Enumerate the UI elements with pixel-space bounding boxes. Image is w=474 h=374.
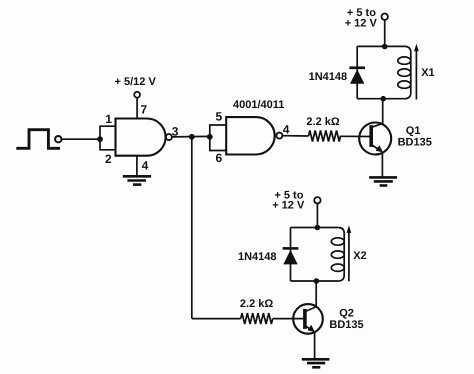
svg-text:+ 12 V: + 12 V: [345, 18, 378, 30]
ground symbol under Q1: [369, 177, 397, 185]
Q2 emitter segment with arrow: [306, 326, 312, 330]
relay coil X1: [405, 46, 411, 98]
svg-text:1N4148: 1N4148: [238, 251, 277, 263]
Q1 emitter wire down: [381, 152, 383, 176]
diode D2 cathode bar: [283, 247, 299, 250]
relay X1 top rail: [357, 45, 404, 47]
supply terminal of gate (+5/12V): [134, 92, 140, 98]
resistor R1 2.2k zigzag: [309, 131, 341, 142]
wire lower channel vertical drop: [191, 137, 193, 319]
wire gate2 input tie (pins 5-6): [210, 125, 226, 151]
Q1 collector wire up to relay: [382, 99, 384, 124]
supply terminal X2 (+5 to +12V): [314, 197, 320, 203]
transistor Q2 body circle: [293, 304, 323, 334]
node collector junction X1: [380, 96, 386, 102]
svg-text:1: 1: [105, 112, 112, 126]
svg-text:6: 6: [216, 151, 223, 165]
svg-text:+ 5/12 V: + 5/12 V: [115, 76, 157, 88]
svg-text:Q2: Q2: [339, 308, 354, 320]
pin 7 supply wire: [136, 98, 138, 119]
gate1 output inversion bubble: [166, 134, 172, 140]
Q1 emitter segment with arrow: [372, 145, 380, 150]
svg-text:5: 5: [216, 110, 223, 124]
svg-text:1N4148: 1N4148: [309, 71, 348, 83]
NAND gate U1b body: [226, 117, 274, 154]
svg-text:X1: X1: [421, 67, 434, 79]
diode D1 triangle: [350, 69, 364, 84]
ground symbol under Q2: [302, 359, 330, 367]
svg-text:+ 12 V: + 12 V: [272, 200, 305, 212]
svg-text:2: 2: [105, 152, 112, 166]
input pulse waveform: [16, 130, 60, 149]
relay X2 top rail: [291, 227, 339, 229]
svg-text:2.2 kΩ: 2.2 kΩ: [306, 116, 339, 128]
relay X2 arrow: [348, 232, 350, 282]
diode D1 branch vertical wire: [356, 46, 358, 98]
diode D2 branch vertical wire: [290, 228, 292, 282]
relay X2 bottom rail: [291, 280, 339, 282]
Q2 collector segment: [306, 307, 317, 312]
Q1 base bar: [369, 125, 373, 147]
Q2 emitter wire down: [314, 332, 316, 358]
input terminal circle: [55, 136, 61, 142]
diode D2 triangle: [283, 250, 297, 265]
wire lower channel horizontal to R2: [192, 318, 241, 320]
svg-text:7: 7: [141, 103, 148, 117]
supply terminal X1 (+5 to +12V): [382, 14, 388, 20]
supply wire to relay X1 rail: [384, 20, 386, 47]
node junction at gate2 inputs: [207, 134, 213, 140]
svg-text:X2: X2: [353, 250, 366, 262]
Q2 collector wire up to relay X2: [315, 281, 317, 307]
Q1 collector segment: [372, 123, 383, 127]
wire gate2 output to resistor R1: [282, 135, 308, 137]
relay coil X2: [338, 228, 344, 282]
svg-text:BD135: BD135: [329, 319, 363, 331]
wire gate1 input tie (pins 1-2): [100, 126, 116, 150]
wire gate1 output to gate2 inputs: [172, 135, 210, 138]
diode D1 cathode bar: [349, 66, 365, 69]
ground symbol under gate1: [123, 176, 151, 184]
node collector junction X2: [314, 278, 320, 284]
wire input terminal to gate1 inputs: [62, 138, 101, 140]
node junction at gate1 inputs: [97, 136, 103, 142]
svg-text:Q1: Q1: [406, 125, 421, 137]
node supply junction X2: [315, 225, 321, 231]
svg-text:4001/4011: 4001/4011: [233, 99, 284, 111]
Q2 base bar: [303, 309, 307, 329]
svg-text:BD135: BD135: [398, 136, 432, 148]
gate2 output inversion bubble: [276, 133, 282, 139]
transistor Q1 body circle: [359, 123, 391, 155]
supply wire to relay X2 rail: [316, 204, 318, 228]
resistor R2 2.2k zigzag: [241, 313, 273, 324]
svg-text:4: 4: [142, 159, 149, 173]
node supply junction X1: [382, 44, 388, 50]
NAND gate U1a body: [116, 119, 166, 156]
relay X1 arrow: [415, 50, 417, 100]
node junction to lower channel: [189, 134, 195, 140]
svg-text:2.2 kΩ: 2.2 kΩ: [240, 298, 273, 310]
pin 4 ground wire: [136, 156, 138, 176]
wire R2 to Q2 base: [273, 318, 305, 320]
svg-text:4: 4: [283, 123, 290, 137]
relay X1 bottom rail: [357, 98, 404, 100]
wire R1 to Q1 base: [340, 135, 371, 137]
